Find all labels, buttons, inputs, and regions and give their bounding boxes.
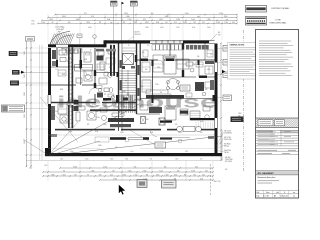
svg-text:EQ: EQ: [150, 159, 152, 161]
svg-text:2450: 2450: [185, 151, 188, 153]
leader diagonals bottom-left: [49, 104, 140, 155]
svg-text:915: 915: [147, 45, 150, 47]
interior walls: [56, 48, 58, 67]
svg-text:1200: 1200: [238, 113, 242, 115]
svg-text:R101: R101: [118, 111, 122, 113]
title block footer: [256, 189, 299, 191]
core dark cells: [97, 56, 104, 61]
top flag marker: [122, 2, 125, 5]
svg-text:915: 915: [175, 124, 178, 126]
left callout chip 2: [12, 70, 20, 75]
svg-text:1 050: 1 050: [90, 106, 94, 108]
svg-text:1 050: 1 050: [72, 50, 76, 52]
svg-text:1 050: 1 050: [224, 22, 228, 24]
svg-text:2450: 2450: [49, 19, 53, 21]
right exterior wall: [215, 44, 218, 63]
svg-text:D-04: D-04: [192, 27, 195, 29]
second heavy band: [110, 137, 126, 140]
svg-text:A3: A3: [274, 195, 276, 198]
svg-text:760 1 050: 760 1 050: [224, 131, 231, 133]
svg-text:450: 450: [205, 89, 208, 91]
svg-text:R101: R101: [145, 22, 149, 24]
left callout chip 3: [10, 81, 19, 86]
svg-text:2 100: 2 100: [44, 165, 48, 167]
plan top wall right part: [105, 40, 150, 43]
svg-text:1200: 1200: [156, 175, 160, 177]
svg-text:2 100: 2 100: [128, 19, 132, 21]
svg-text:W2: W2: [112, 171, 114, 173]
svg-text:915: 915: [218, 34, 221, 36]
svg-text:610 450: 610 450: [225, 157, 231, 159]
svg-text:3 600: 3 600: [113, 179, 117, 181]
svg-text:D-04: D-04: [62, 54, 65, 56]
svg-text:3 600: 3 600: [210, 99, 214, 101]
mid callout 2: [155, 142, 166, 148]
notes box: [228, 43, 264, 80]
mouse cursor: [119, 185, 125, 195]
bottom dimension lines: [60, 167, 213, 169]
svg-text:915: 915: [134, 167, 137, 169]
svg-text:610: 610: [146, 119, 149, 121]
elevator: [123, 54, 134, 65]
svg-text:610: 610: [197, 56, 200, 58]
left exterior wall: [48, 48, 51, 95]
svg-text:2 100 R101: 2 100 R101: [224, 132, 232, 134]
svg-text:3 600: 3 600: [191, 171, 195, 173]
wall jog: [104, 40, 107, 47]
svg-text:2 100: 2 100: [31, 24, 35, 26]
svg-text:2 100: 2 100: [150, 104, 154, 106]
right label chip lower: [231, 117, 244, 123]
svg-text:3 600: 3 600: [110, 158, 114, 160]
svg-text:Dwn: Dwn: [266, 192, 269, 194]
svg-text:915: 915: [84, 13, 87, 15]
svg-text:90: 90: [52, 22, 54, 24]
svg-text:5 400: 5 400: [98, 145, 102, 147]
stair treads upper: [120, 70, 137, 72]
svg-text:R101: R101: [84, 59, 88, 61]
svg-text:2 100: 2 100: [160, 151, 164, 153]
svg-text:915: 915: [238, 115, 241, 117]
svg-text:DEMOLISHED WALL: DEMOLISHED WALL: [269, 21, 286, 24]
svg-text:2450: 2450: [159, 19, 163, 21]
svg-text:Ref.: Ref.: [257, 192, 261, 194]
svg-text:1 050: 1 050: [216, 22, 220, 24]
extra left dim string: [39, 45, 41, 160]
svg-text:1200 90: 1200 90: [134, 32, 140, 34]
right callouts: [223, 46, 232, 52]
svg-text:3 600: 3 600: [165, 16, 169, 18]
svg-text:610: 610: [141, 86, 144, 88]
property boundary dash-dot: [243, 30, 245, 171]
bottom dashed line: [210, 164, 212, 196]
svg-text:5 400: 5 400: [100, 55, 104, 57]
svg-text:3 600: 3 600: [207, 27, 211, 29]
svg-text:450: 450: [232, 22, 235, 24]
right room extra detail: [153, 63, 163, 65]
left dimension lines: [26, 38, 28, 167]
svg-text:W2: W2: [205, 171, 207, 173]
right dark chip: [232, 51, 237, 56]
svg-text:Sc 1:50: Sc 1:50: [263, 196, 269, 198]
svg-text:1 050: 1 050: [75, 109, 79, 111]
title block notes text: [259, 40, 291, 42]
stair treads lower: [119, 95, 121, 113]
svg-text:450: 450: [202, 175, 205, 177]
svg-text:2450: 2450: [86, 22, 90, 24]
svg-text:450: 450: [177, 171, 180, 173]
svg-text:3 600: 3 600: [103, 124, 107, 126]
svg-text:2 100: 2 100: [85, 159, 89, 161]
svg-text:1 830: 1 830: [126, 16, 130, 18]
svg-text:R101: R101: [62, 16, 66, 18]
svg-text:1 830: 1 830: [176, 19, 180, 21]
title block title row: [256, 170, 299, 172]
bottom chip 1: [137, 180, 147, 188]
svg-text:610: 610: [200, 159, 202, 161]
svg-text:1 830: 1 830: [112, 109, 116, 111]
svg-text:D-04: D-04: [191, 19, 194, 21]
heavy wall seg right: [190, 118, 215, 120]
svg-text:450: 450: [195, 167, 198, 169]
title block mid rows: [256, 148, 299, 150]
furniture upper-right rooms: [152, 45, 155, 51]
svg-text:2 450: 2 450: [24, 74, 26, 78]
bottom exterior wall: [45, 153, 222, 156]
svg-text:2 740: 2 740: [155, 84, 159, 86]
svg-text:1200: 1200: [60, 159, 63, 161]
fixtures bath upper: [98, 88, 102, 92]
svg-text:2 100: 2 100: [103, 167, 107, 169]
svg-text:1 830: 1 830: [128, 107, 132, 109]
svg-text:2 450: 2 450: [24, 92, 26, 96]
svg-text:Basement floor plan: Basement floor plan: [258, 176, 276, 179]
svg-text:2 100: 2 100: [190, 45, 194, 47]
lower room fixtures: [125, 138, 129, 142]
svg-text:90: 90: [63, 171, 65, 173]
svg-text:1 830 915: 1 830 915: [134, 34, 141, 36]
svg-text:3 600 760: 3 600 760: [224, 150, 231, 152]
svg-text:760: 760: [193, 175, 196, 177]
svg-text:2 100: 2 100: [130, 151, 134, 153]
svg-text:2450: 2450: [124, 13, 128, 15]
svg-text:760 90: 760 90: [224, 152, 229, 154]
svg-text:ATL. BASEMENT: ATL. BASEMENT: [258, 172, 275, 175]
svg-text:TO BE: TO BE: [275, 19, 281, 21]
right dimension line: [220, 43, 222, 160]
svg-text:1 830: 1 830: [120, 132, 124, 134]
svg-text:R101: R101: [60, 89, 64, 91]
svg-text:1 830: 1 830: [122, 175, 126, 177]
furniture upper-left rooms: [59, 50, 67, 55]
legend item 1: [246, 6, 267, 13]
svg-text:1 050: 1 050: [176, 27, 180, 29]
deck hatch lower right: [195, 122, 197, 129]
svg-text:760: 760: [99, 175, 102, 177]
svg-text:2 100: 2 100: [165, 175, 169, 177]
svg-text:610: 610: [142, 52, 145, 54]
svg-text:1 830: 1 830: [145, 27, 149, 29]
left label strip: [2, 105, 25, 112]
plan top wall left part: [48, 44, 56, 47]
svg-text:760: 760: [193, 22, 196, 24]
svg-text:450 2 740: 450 2 740: [214, 181, 221, 183]
svg-text:EXISTING TILE WALL: EXISTING TILE WALL: [272, 7, 290, 10]
svg-text:3 600 1200: 3 600 1200: [224, 139, 232, 141]
svg-text:3 600: 3 600: [73, 167, 77, 169]
bottom chip 2: [162, 180, 177, 188]
title block rows: [256, 130, 273, 133]
svg-text:1200: 1200: [224, 16, 228, 18]
svg-text:1 050: 1 050: [143, 171, 147, 173]
svg-text:2 100 1 830: 2 100 1 830: [55, 27, 63, 29]
svg-text:W2: W2: [104, 94, 106, 96]
leaders top-left: [18, 52, 49, 54]
svg-text:1 050: 1 050: [91, 171, 95, 173]
svg-text:915 R101: 915 R101: [224, 144, 231, 146]
svg-text:W2: W2: [180, 99, 182, 101]
svg-text:450: 450: [110, 175, 113, 177]
title block outer: [256, 30, 299, 199]
svg-text:2 100: 2 100: [219, 13, 223, 15]
svg-text:3 600: 3 600: [175, 158, 179, 160]
svg-text:2 100: 2 100: [134, 175, 138, 177]
svg-text:D-04: D-04: [150, 132, 153, 134]
svg-text:90: 90: [90, 50, 92, 52]
top callout box B: [130, 1, 137, 6]
svg-text:2 740: 2 740: [192, 64, 196, 66]
svg-text:W2: W2: [74, 175, 76, 177]
svg-text:04/ww-01: 04/ww-01: [281, 196, 288, 198]
dining table right: [177, 126, 183, 132]
svg-text:450: 450: [96, 111, 99, 113]
svg-text:1 830: 1 830: [168, 94, 172, 96]
svg-text:1 830 2450: 1 830 2450: [225, 159, 233, 161]
svg-text:90: 90: [87, 175, 89, 177]
svg-text:1200: 1200: [174, 175, 178, 177]
svg-text:915: 915: [202, 22, 205, 24]
entry ramp hatch: [50, 34, 55, 45]
svg-text:1 830: 1 830: [100, 151, 104, 153]
svg-text:1200: 1200: [163, 121, 166, 123]
svg-text:2 100: 2 100: [62, 175, 66, 177]
svg-text:W2: W2: [160, 92, 162, 94]
svg-text:D-04: D-04: [156, 22, 159, 24]
svg-text:D-04: D-04: [200, 179, 203, 181]
svg-text:1 830: 1 830: [51, 175, 55, 177]
svg-text:R101: R101: [62, 74, 66, 76]
heavy corridor wall: [68, 47, 70, 103]
svg-text:2 450: 2 450: [24, 114, 26, 118]
svg-text:450: 450: [68, 22, 71, 24]
window tag boxes top: [77, 34, 82, 38]
kitchen counters: [146, 95, 184, 99]
svg-text:760: 760: [104, 106, 107, 108]
svg-text:2 100: 2 100: [55, 69, 59, 71]
svg-text:3 600: 3 600: [200, 121, 204, 123]
svg-text:2 740: 2 740: [96, 117, 100, 119]
svg-text:610: 610: [143, 19, 146, 21]
svg-text:1a: 1a: [293, 196, 295, 198]
desk: [75, 65, 93, 72]
svg-text:610 2 740: 610 2 740: [224, 137, 231, 139]
svg-text:90: 90: [128, 45, 130, 47]
svg-text:D-04: D-04: [159, 171, 162, 173]
svg-text:2450: 2450: [207, 69, 210, 71]
svg-text:chd: chd: [276, 192, 279, 194]
svg-text:2 740: 2 740: [92, 104, 96, 106]
svg-text:915 1 830: 915 1 830: [225, 161, 232, 163]
svg-text:90: 90: [109, 67, 111, 69]
svg-text:Drg: Drg: [257, 195, 260, 198]
svg-text:610: 610: [110, 45, 113, 47]
svg-text:1 050: 1 050: [128, 171, 132, 173]
svg-text:3 600: 3 600: [183, 22, 187, 24]
svg-text:760: 760: [200, 132, 203, 134]
misc dark chips: [120, 60, 122, 68]
svg-text:5 400: 5 400: [31, 21, 35, 23]
svg-text:W2: W2: [99, 22, 101, 24]
upper landing lines: [123, 47, 136, 49]
svg-text:2450: 2450: [157, 67, 160, 69]
svg-text:915: 915: [91, 16, 94, 18]
svg-text:760: 760: [164, 167, 167, 169]
door swing arcs: [81, 69, 87, 75]
svg-text:GENERAL NOTES:: GENERAL NOTES:: [230, 44, 246, 47]
svg-text:915: 915: [65, 121, 68, 123]
svg-text:1200: 1200: [125, 159, 128, 161]
svg-text:3 600: 3 600: [76, 19, 80, 21]
svg-text:5 400: 5 400: [122, 91, 126, 93]
svg-text:3 600: 3 600: [88, 27, 92, 29]
svg-text:D-04: D-04: [107, 19, 110, 21]
top callout box A: [111, 1, 118, 6]
svg-text:450: 450: [145, 69, 148, 71]
svg-text:2450: 2450: [210, 107, 213, 109]
svg-text:1 830: 1 830: [207, 19, 211, 21]
wall stubs: [94, 70, 96, 76]
svg-text:450: 450: [225, 169, 228, 171]
svg-text:2 100: 2 100: [185, 13, 189, 15]
svg-text:3 600: 3 600: [70, 151, 74, 153]
lower heavy wall: [55, 129, 115, 131]
furniture mid band: [58, 104, 67, 114]
svg-text:1200: 1200: [29, 168, 32, 170]
svg-text:1200: 1200: [238, 118, 242, 120]
svg-text:90: 90: [115, 104, 117, 106]
svg-text:3 600: 3 600: [55, 111, 59, 113]
mid callout: [180, 85, 190, 91]
closet row left top: [62, 49, 66, 53]
svg-text:W2: W2: [87, 124, 89, 126]
svg-text:2 100: 2 100: [41, 22, 45, 24]
legend item 2: [246, 17, 267, 26]
svg-text:2450: 2450: [70, 94, 73, 96]
svg-text:450: 450: [134, 22, 137, 24]
svg-text:5 400: 5 400: [178, 132, 182, 134]
svg-text:D-04: D-04: [95, 131, 98, 133]
left callout chip 1: [9, 51, 18, 56]
svg-text:5 400: 5 400: [160, 27, 164, 29]
top dimension lines: [55, 14, 237, 16]
x-brace columns: [159, 118, 165, 125]
svg-text:2 100: 2 100: [185, 114, 189, 116]
core wall band: [110, 45, 112, 76]
svg-text:610: 610: [115, 147, 118, 149]
svg-text:915: 915: [174, 22, 177, 24]
